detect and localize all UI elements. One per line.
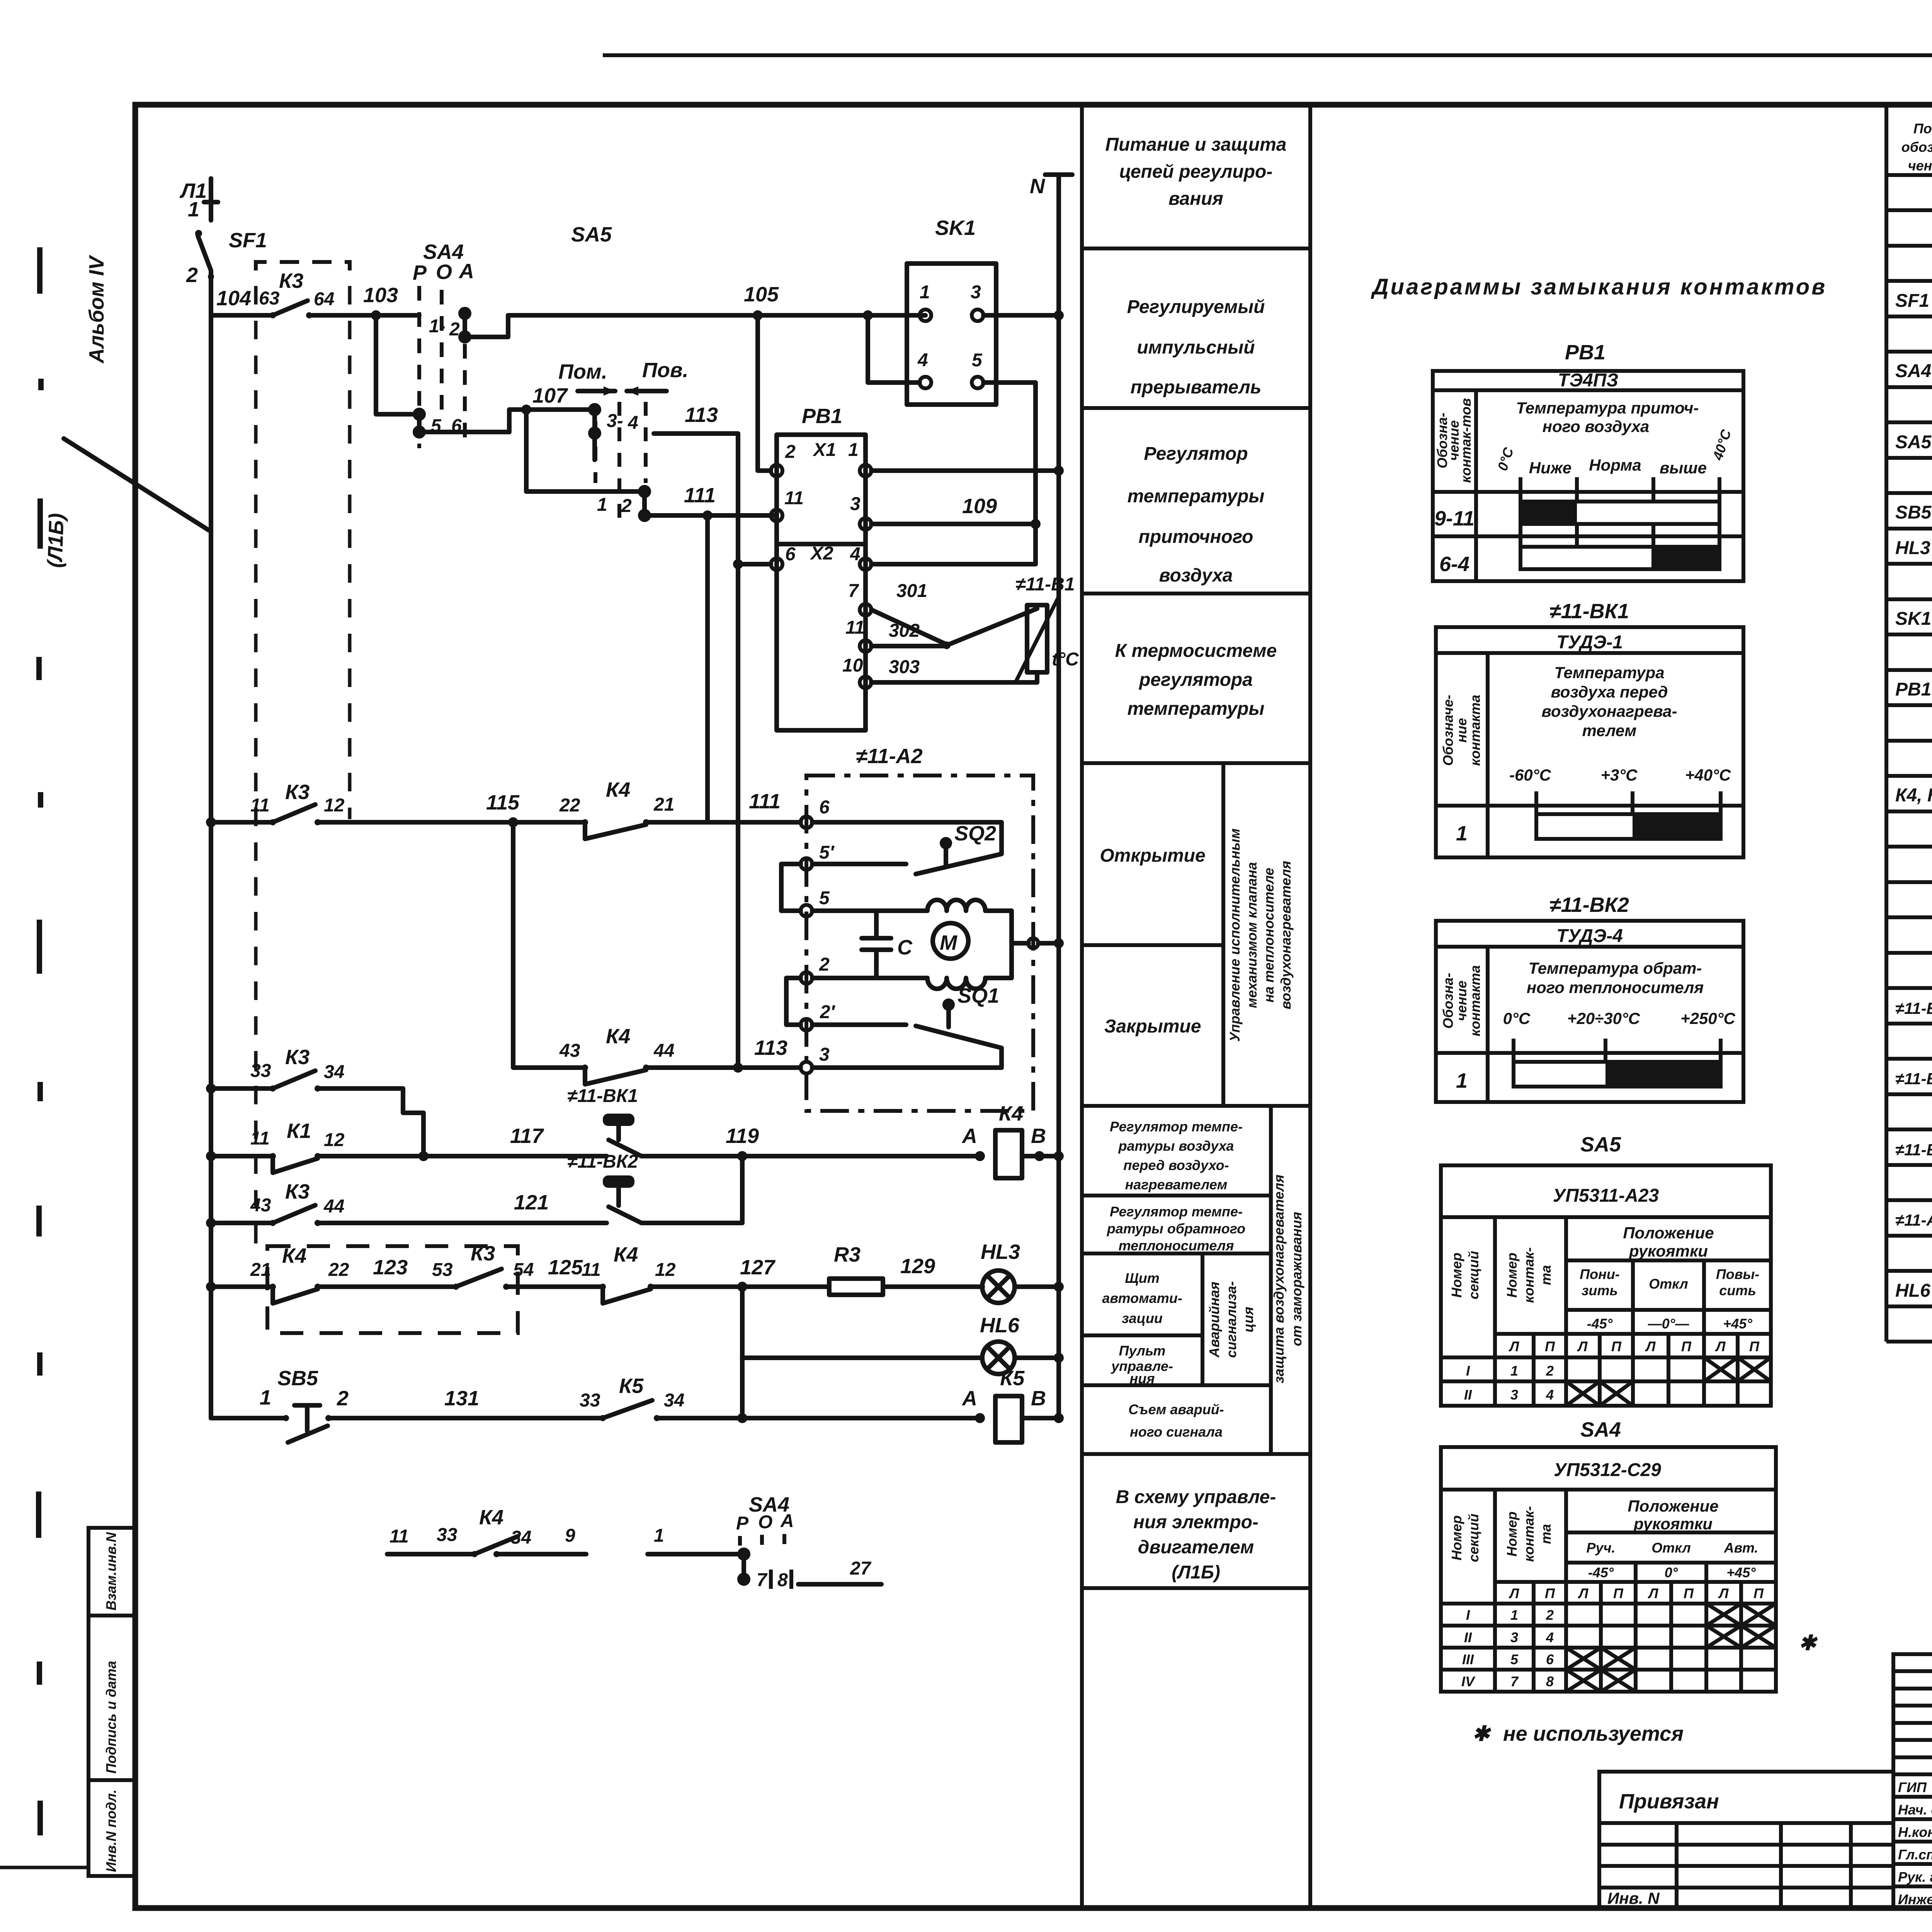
- svg-text:22: 22: [559, 795, 580, 816]
- svg-text:5′: 5′: [819, 842, 835, 863]
- svg-text:6-4: 6-4: [1439, 553, 1469, 576]
- svg-text:Пони-: Пони-: [1580, 1266, 1620, 1282]
- svg-text:II: II: [1464, 1629, 1472, 1645]
- parts row SB5: [1895, 502, 1932, 523]
- paper edge artifacts: [0, 247, 88, 1867]
- parts row SF1: [1895, 291, 1932, 311]
- svg-text:на теплоносителе: на теплоносителе: [1261, 868, 1277, 1003]
- svg-text:1: 1: [597, 495, 607, 515]
- svg-text:ТУДЭ-1: ТУДЭ-1: [1556, 632, 1623, 653]
- svg-text:1: 1: [654, 1526, 664, 1546]
- svg-text:11: 11: [845, 617, 865, 638]
- svg-text:SВ5: SВ5: [277, 1367, 318, 1390]
- svg-text:Подпись и дата: Подпись и дата: [103, 1661, 119, 1774]
- feeder reference (Л1Б): [43, 439, 209, 568]
- spare contact K4 33-34: [387, 1506, 586, 1557]
- svg-text:Авт.: Авт.: [1724, 1540, 1759, 1556]
- svg-text:Ниже: Ниже: [1529, 459, 1571, 477]
- svg-text:0°С: 0°С: [1503, 1009, 1531, 1027]
- svg-text:Л: Л: [1509, 1585, 1520, 1601]
- svg-text:SA4: SA4: [423, 240, 464, 264]
- svg-text:SA4: SA4: [1895, 361, 1931, 381]
- svg-text:механизмом клапана: механизмом клапана: [1244, 862, 1260, 1008]
- contact SA5 3-4: [588, 403, 638, 440]
- svg-text:Рук. гр.: Рук. гр.: [1898, 1869, 1932, 1885]
- parts table grid: [1886, 105, 1932, 1342]
- svg-text:22: 22: [328, 1260, 349, 1280]
- svg-text:HL3: HL3: [981, 1240, 1020, 1264]
- svg-text:приточного: приточного: [1139, 527, 1253, 547]
- svg-text:1: 1: [1456, 1069, 1468, 1092]
- svg-text:6: 6: [785, 544, 796, 565]
- svg-text:В: В: [1031, 1387, 1046, 1410]
- svg-text:2: 2: [337, 1387, 349, 1410]
- wire 303: [871, 657, 1037, 682]
- svg-text:44: 44: [653, 1041, 674, 1061]
- svg-text:Щит: Щит: [1125, 1270, 1160, 1286]
- svg-text:1: 1: [260, 1386, 271, 1409]
- parts row HL6: [1895, 1281, 1932, 1301]
- svg-text:Откл: Откл: [1651, 1540, 1691, 1556]
- svg-text:2: 2: [1546, 1363, 1554, 1379]
- svg-text:(Л1Б): (Л1Б): [1172, 1562, 1220, 1583]
- thermal contact ≠11-ВК2: [567, 1151, 742, 1223]
- svg-text:-60°С: -60°С: [1509, 766, 1551, 784]
- svg-text:IV: IV: [1461, 1673, 1476, 1689]
- svg-text:N: N: [1030, 175, 1045, 198]
- wire row 117: [206, 1151, 273, 1161]
- wire left bus: [209, 315, 213, 1418]
- svg-text:119: 119: [726, 1124, 759, 1148]
- svg-text:1-: 1-: [429, 316, 446, 337]
- svg-text:+45°: +45°: [1726, 1565, 1756, 1580]
- album rotated note: [85, 255, 108, 364]
- svg-text:SF1: SF1: [1895, 291, 1929, 311]
- parts row ВК1: [1895, 998, 1932, 1018]
- regulator PB1 box: [771, 405, 871, 730]
- svg-text:Гл.спец: Гл.спец: [1898, 1847, 1932, 1862]
- svg-text:ратуры обратного: ратуры обратного: [1107, 1221, 1245, 1236]
- svg-text:Регулятор: Регулятор: [1144, 444, 1248, 464]
- svg-text:от замораживания: от замораживания: [1289, 1212, 1304, 1346]
- svg-text:зации: зации: [1122, 1310, 1163, 1326]
- wire SK1-3 to N: [983, 310, 1064, 320]
- svg-text:цепей регулиро-: цепей регулиро-: [1119, 162, 1273, 182]
- wire row SB5: [211, 1386, 286, 1418]
- wire row 121: [206, 1218, 273, 1228]
- svg-text:-45°: -45°: [1587, 1316, 1613, 1332]
- svg-text:контак-тов: контак-тов: [1458, 398, 1474, 483]
- contact K5 33-34: [580, 1374, 980, 1423]
- svg-text:Питание и защита: Питание и защита: [1105, 134, 1287, 155]
- svg-text:Диаграммы замыкания контакто: Диаграммы замыкания контактов: [1371, 274, 1827, 299]
- svg-text:125: 125: [548, 1256, 583, 1279]
- svg-text:33: 33: [437, 1525, 457, 1545]
- svg-text:К3: К3: [285, 781, 310, 804]
- wire 105 step from SA4: [465, 283, 925, 337]
- svg-text:К4, К5: К4, К5: [1895, 785, 1932, 806]
- svg-text:рукоятки: рукоятки: [1633, 1515, 1713, 1533]
- svg-text:1: 1: [1510, 1363, 1518, 1379]
- svg-text:9-11: 9-11: [1434, 507, 1475, 530]
- svg-text:рукоятки: рукоятки: [1629, 1242, 1708, 1260]
- svg-text:К3: К3: [285, 1046, 310, 1069]
- limit switch SQ1: [812, 984, 1002, 1068]
- svg-text:ного воздуха: ного воздуха: [1543, 417, 1650, 435]
- svg-text:РВ1: РВ1: [802, 405, 842, 428]
- svg-text:К4: К4: [282, 1244, 306, 1267]
- svg-text:1: 1: [1456, 822, 1468, 845]
- parts table header: [1901, 121, 1932, 173]
- diagram table ВК2: [1436, 893, 1743, 1102]
- contact K3 53-54: [432, 1242, 603, 1290]
- svg-text:64: 64: [314, 289, 334, 310]
- svg-text:I: I: [1466, 1607, 1470, 1623]
- svg-text:Р: Р: [413, 261, 427, 284]
- svg-text:секций: секций: [1466, 1251, 1481, 1299]
- svg-text:та: та: [1538, 1265, 1554, 1285]
- svg-text:Управление исполнительным: Управление исполнительным: [1227, 828, 1243, 1042]
- svg-text:3: 3: [819, 1044, 830, 1065]
- function column grid: [1082, 105, 1310, 1908]
- svg-text:44: 44: [323, 1196, 344, 1217]
- svg-text:П: П: [1681, 1338, 1692, 1354]
- svg-text:Температура приточ-: Температура приточ-: [1516, 399, 1699, 417]
- svg-text:Л: Л: [1577, 1338, 1588, 1354]
- svg-text:К5: К5: [619, 1374, 644, 1398]
- svg-text:53: 53: [432, 1260, 453, 1280]
- svg-text:воздухонагрева-: воздухонагрева-: [1542, 702, 1677, 720]
- svg-text:11: 11: [784, 488, 804, 509]
- parts row А2: [1895, 1209, 1932, 1230]
- svg-text:2: 2: [819, 954, 830, 975]
- wire 104 main row: [211, 287, 270, 315]
- svg-text:П: П: [1684, 1585, 1694, 1601]
- svg-text:SB5: SB5: [1895, 502, 1932, 523]
- svg-text:7: 7: [1510, 1673, 1519, 1689]
- svg-text:ного сигнала: ного сигнала: [1130, 1424, 1223, 1440]
- switch table SA5: [1441, 1133, 1771, 1406]
- relay coil К4: [961, 1102, 1064, 1178]
- svg-text:выше: выше: [1660, 459, 1707, 477]
- switch SA4 position lines: [413, 240, 474, 448]
- svg-text:SA5: SA5: [571, 223, 612, 246]
- svg-text:Инженер: Инженер: [1898, 1891, 1932, 1907]
- svg-text:Аварийная: Аварийная: [1206, 1282, 1222, 1358]
- svg-text:34: 34: [324, 1062, 344, 1082]
- svg-text:SA5: SA5: [1895, 432, 1932, 452]
- svg-text:113: 113: [754, 1036, 787, 1060]
- wire 113 lower row: [513, 822, 585, 1068]
- svg-text:≠11-ВК2: ≠11-ВК2: [1895, 1070, 1932, 1088]
- svg-text:t°C: t°C: [1052, 649, 1079, 670]
- svg-text:РВ1: РВ1: [1895, 679, 1931, 700]
- svg-text:≠11-А2: ≠11-А2: [1895, 1211, 1932, 1229]
- svg-text:Регулятор темпе-: Регулятор темпе-: [1110, 1119, 1243, 1134]
- svg-text:+250°С: +250°С: [1680, 1009, 1735, 1027]
- svg-text:М: М: [940, 931, 957, 954]
- svg-text:Привязан: Привязан: [1619, 1790, 1719, 1813]
- jumper 2-2': [786, 978, 801, 1025]
- svg-text:≠11-ВК2: ≠11-ВК2: [1549, 893, 1629, 917]
- svg-text:3: 3: [850, 494, 861, 514]
- svg-text:SQ2: SQ2: [954, 822, 996, 845]
- left margin stamp boxes: [88, 1528, 134, 1876]
- svg-text:12: 12: [324, 795, 345, 816]
- svg-text:ния: ния: [1130, 1371, 1155, 1386]
- svg-text:111: 111: [749, 790, 781, 813]
- svg-text:+20÷30°С: +20÷30°С: [1567, 1009, 1640, 1027]
- parts row РВ1: [1895, 679, 1932, 700]
- breaker SF1: [186, 229, 267, 315]
- lamp HL6: [980, 1314, 1064, 1374]
- diagrams title: [1371, 274, 1827, 299]
- svg-text:1: 1: [848, 440, 859, 460]
- wire 302: [871, 609, 1037, 649]
- contact K4 22-21: [559, 778, 801, 839]
- wire SK1-4 loop: [868, 315, 920, 383]
- svg-text:111: 111: [684, 484, 716, 507]
- svg-text:П: П: [1613, 1585, 1624, 1601]
- svg-text:4: 4: [628, 413, 638, 433]
- svg-text:Н.контр: Н.контр: [1898, 1824, 1932, 1840]
- svg-text:6: 6: [819, 797, 830, 818]
- svg-text:К1: К1: [287, 1119, 311, 1143]
- svg-text:34: 34: [664, 1390, 684, 1411]
- svg-text:температуры: температуры: [1128, 699, 1265, 719]
- svg-text:+40°С: +40°С: [1685, 766, 1731, 784]
- contact SA4 1-2: [429, 307, 471, 344]
- svg-text:1: 1: [920, 282, 930, 303]
- wire 301: [871, 581, 947, 645]
- resistor R3: [829, 1243, 983, 1295]
- svg-text:SK1: SK1: [1895, 609, 1931, 629]
- svg-text:Л: Л: [1715, 1338, 1726, 1354]
- svg-text:та: та: [1538, 1524, 1554, 1544]
- svg-text:Номер: Номер: [1504, 1512, 1520, 1557]
- svg-text:контак-: контак-: [1521, 1506, 1537, 1562]
- svg-text:115: 115: [486, 791, 520, 814]
- svg-text:Положение: Положение: [1628, 1497, 1718, 1515]
- svg-text:302: 302: [889, 621, 920, 641]
- svg-text:10: 10: [842, 655, 863, 676]
- svg-text:Температура: Температура: [1554, 663, 1664, 682]
- svg-text:ния электро-: ния электро-: [1133, 1512, 1259, 1532]
- svg-text:107: 107: [532, 384, 568, 407]
- svg-text:8: 8: [777, 1570, 788, 1590]
- svg-text:R3: R3: [834, 1243, 861, 1266]
- svg-text:≠11-ВК1: ≠11-ВК1: [567, 1086, 638, 1106]
- svg-text:нагревателем: нагревателем: [1125, 1177, 1228, 1192]
- capacitor C: [862, 911, 913, 978]
- svg-text:≠11-ВК1: ≠11-ВК1: [1895, 999, 1932, 1017]
- wire SK1-5 and 109: [871, 383, 1041, 564]
- svg-text:33: 33: [580, 1390, 600, 1411]
- svg-text:теплоносителя: теплоносителя: [1119, 1238, 1234, 1253]
- svg-text:4: 4: [1546, 1629, 1554, 1645]
- svg-text:воздуха: воздуха: [1159, 565, 1233, 586]
- svg-text:6: 6: [1546, 1651, 1554, 1667]
- svg-text:11: 11: [389, 1526, 409, 1547]
- svg-text:Нач. отд.: Нач. отд.: [1898, 1802, 1932, 1818]
- svg-text:SA4: SA4: [1580, 1418, 1621, 1441]
- bus N: [1030, 175, 1072, 1418]
- spare contact SA4 7-8: [648, 1493, 881, 1590]
- contact K3 33-34: [250, 1046, 423, 1156]
- wire row HL3: [206, 1282, 273, 1292]
- svg-text:11: 11: [582, 1260, 601, 1280]
- svg-text:П: П: [1753, 1585, 1764, 1601]
- svg-text:11: 11: [250, 795, 270, 816]
- svg-text:≠11-А2: ≠11-А2: [856, 745, 923, 768]
- svg-text:27: 27: [850, 1558, 872, 1579]
- svg-text:Взам.инв.N: Взам.инв.N: [103, 1532, 119, 1611]
- svg-text:ного теплоносителя: ного теплоносителя: [1527, 978, 1704, 997]
- svg-text:117: 117: [510, 1124, 544, 1148]
- wire PB1-6 tap to 113: [733, 559, 771, 569]
- svg-text:303: 303: [889, 657, 920, 677]
- parts row SA4: [1895, 361, 1932, 381]
- svg-text:Р: Р: [736, 1513, 749, 1534]
- svg-text:SK1: SK1: [935, 216, 976, 240]
- svg-text:21: 21: [250, 1260, 271, 1280]
- svg-text:7: 7: [848, 581, 859, 601]
- svg-text:2: 2: [449, 319, 460, 340]
- svg-text:Положение: Положение: [1623, 1224, 1714, 1242]
- svg-text:3: 3: [1510, 1387, 1518, 1403]
- svg-text:✱: ✱: [1472, 1722, 1492, 1745]
- svg-text:105: 105: [744, 283, 779, 306]
- svg-text:УП5311-А23: УП5311-А23: [1553, 1185, 1659, 1206]
- svg-text:≠11-В1: ≠11-В1: [1015, 574, 1075, 595]
- svg-text:III: III: [1462, 1651, 1474, 1667]
- svg-text:ТУДЭ-4: ТУДЭ-4: [1556, 926, 1623, 946]
- svg-text:2: 2: [621, 496, 632, 516]
- svg-text:C: C: [897, 936, 913, 959]
- svg-text:≠11-В1: ≠11-В1: [1895, 1141, 1932, 1159]
- parts row SK1: [1895, 609, 1932, 629]
- svg-text:1: 1: [1510, 1607, 1518, 1623]
- svg-text:(Л1Б): (Л1Б): [43, 513, 68, 568]
- svg-text:П: П: [1611, 1338, 1622, 1354]
- parts row ВК2: [1895, 1068, 1932, 1088]
- svg-text:секций: секций: [1466, 1514, 1481, 1562]
- svg-text:≠11-ВК2: ≠11-ВК2: [567, 1151, 638, 1172]
- interrupter SK1: [907, 216, 996, 405]
- svg-text:Откл: Откл: [1649, 1276, 1688, 1292]
- svg-text:Номер: Номер: [1504, 1253, 1520, 1298]
- svg-text:К4: К4: [999, 1102, 1023, 1125]
- svg-text:телем: телем: [1582, 721, 1637, 740]
- svg-text:Съем аварий-: Съем аварий-: [1128, 1401, 1224, 1417]
- svg-text:Л: Л: [1718, 1585, 1729, 1601]
- svg-text:А: А: [961, 1387, 977, 1410]
- relay coil К5: [961, 1367, 1064, 1442]
- svg-text:перед воздухо-: перед воздухо-: [1123, 1157, 1229, 1173]
- svg-text:2: 2: [785, 442, 796, 462]
- svg-text:импульсный: импульсный: [1137, 337, 1255, 358]
- svg-text:Номер: Номер: [1449, 1515, 1464, 1561]
- svg-text:Л: Л: [1645, 1338, 1656, 1354]
- svg-text:I: I: [1466, 1363, 1470, 1379]
- svg-text:К4: К4: [606, 1025, 630, 1048]
- svg-text:К термосистеме: К термосистеме: [1115, 641, 1277, 661]
- svg-text:О: О: [436, 260, 452, 284]
- wire PB1-1 to N: [871, 466, 1064, 476]
- svg-text:3-: 3-: [607, 411, 623, 431]
- wire row открытие: bus to contacts: [206, 817, 273, 827]
- wire 111 upper: [645, 484, 777, 822]
- wire row 33-34: [206, 1083, 273, 1094]
- wire 103: [363, 284, 419, 320]
- parts row SA5: [1895, 432, 1932, 452]
- svg-text:ТЭ4ПЗ: ТЭ4ПЗ: [1558, 370, 1618, 391]
- svg-text:вания: вания: [1168, 189, 1223, 209]
- svg-text:Номер: Номер: [1449, 1253, 1464, 1298]
- svg-text:Инв. N: Инв. N: [1607, 1889, 1660, 1907]
- svg-text:3: 3: [971, 282, 981, 303]
- parts row К4 К5: [1895, 785, 1932, 806]
- svg-text:контакта: контакта: [1467, 965, 1483, 1036]
- svg-text:Закрытие: Закрытие: [1104, 1016, 1201, 1037]
- contact K4 11-12: [582, 1243, 829, 1303]
- svg-text:автомати-: автомати-: [1102, 1290, 1182, 1306]
- svg-text:3: 3: [1510, 1629, 1518, 1645]
- signature block names: [1898, 1779, 1932, 1907]
- function column texts: [1100, 134, 1304, 1583]
- svg-text:5: 5: [819, 888, 830, 908]
- svg-text:II: II: [1464, 1387, 1472, 1403]
- svg-text:Х1: Х1: [812, 440, 836, 460]
- svg-text:К4: К4: [479, 1506, 503, 1529]
- svg-text:43: 43: [250, 1195, 271, 1216]
- svg-text:воздуха перед: воздуха перед: [1551, 683, 1668, 701]
- svg-text:Норма: Норма: [1589, 456, 1641, 474]
- jumper 5'-5: [781, 864, 801, 911]
- svg-text:П: П: [1749, 1338, 1760, 1354]
- svg-text:Руч.: Руч.: [1586, 1540, 1615, 1556]
- svg-text:чение: чение: [1908, 158, 1932, 173]
- pushbutton SB5: [277, 1367, 603, 1442]
- svg-text:7: 7: [757, 1570, 768, 1590]
- svg-text:SF1: SF1: [229, 229, 267, 252]
- motor M: [933, 923, 1064, 959]
- svg-text:П: П: [1545, 1585, 1555, 1601]
- svg-text:34: 34: [511, 1527, 531, 1548]
- wire 113 upper: [595, 403, 738, 1068]
- svg-text:9: 9: [565, 1526, 575, 1546]
- svg-text:4: 4: [917, 350, 928, 371]
- svg-text:5: 5: [972, 350, 983, 371]
- svg-text:301: 301: [896, 581, 927, 601]
- svg-text:А: А: [961, 1124, 977, 1148]
- svg-text:123: 123: [373, 1256, 408, 1279]
- svg-text:К3: К3: [285, 1180, 310, 1203]
- svg-text:Инв.N подл.: Инв.N подл.: [103, 1789, 119, 1872]
- svg-text:воздухонагревателя: воздухонагревателя: [1278, 861, 1294, 1009]
- diagram table ВК1: [1436, 600, 1743, 857]
- svg-text:Поз.: Поз.: [1913, 121, 1932, 136]
- note not used: [1472, 1722, 1684, 1745]
- svg-text:А: А: [458, 260, 474, 283]
- svg-text:2: 2: [1546, 1607, 1554, 1623]
- svg-text:сить: сить: [1719, 1282, 1756, 1298]
- svg-text:11: 11: [250, 1128, 270, 1149]
- thermal contact ≠11-ВК1: [567, 1086, 980, 1161]
- svg-text:HL6: HL6: [1895, 1281, 1930, 1301]
- svg-text:П: П: [1545, 1338, 1555, 1354]
- wire 107: [419, 384, 595, 432]
